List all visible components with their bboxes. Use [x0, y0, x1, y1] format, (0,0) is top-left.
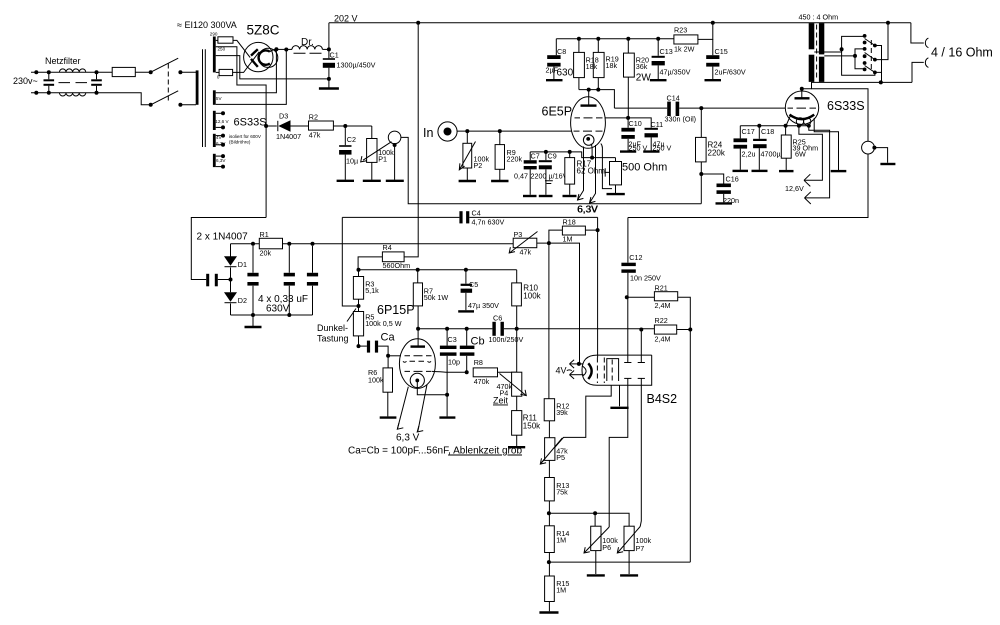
tube 6E5P screen grid dashes	[575, 117, 603, 119]
transformer T1 6.3V winding	[213, 154, 216, 167]
node CRT heater	[577, 362, 581, 366]
capacitor Cb	[466, 329, 468, 346]
tube B4S2 heater arc	[583, 366, 587, 376]
node 6S33S grid / R24	[699, 106, 703, 110]
resistor R18	[574, 52, 585, 77]
potentiometer P5	[548, 421, 550, 438]
svg-text:P7: P7	[636, 544, 645, 553]
capacitor C3	[446, 329, 448, 346]
node 202V drop	[416, 21, 420, 25]
node Z terminal bottom	[393, 143, 397, 147]
svg-text:R8: R8	[474, 358, 483, 367]
svg-text:18k: 18k	[606, 61, 618, 70]
transformer OT secondary bottom section	[819, 57, 824, 82]
svg-text:C14: C14	[667, 94, 680, 103]
capacitor C10	[626, 116, 630, 120]
svg-text:C3: C3	[448, 335, 457, 344]
diode D2	[230, 280, 232, 316]
svg-text:1k 2W: 1k 2W	[674, 45, 695, 54]
svg-text:C4: C4	[472, 208, 481, 217]
wire R4 left to grid rail	[358, 257, 382, 270]
wiper P1	[363, 142, 392, 161]
svg-text:220k: 220k	[708, 149, 726, 158]
svg-text:C1: C1	[330, 51, 339, 60]
tube 6P15P cathode circle	[410, 373, 424, 387]
node P6 top	[593, 511, 597, 515]
wire doubler feed from 250V tap	[191, 218, 266, 280]
ground C1	[328, 79, 330, 88]
ground R6	[387, 392, 389, 416]
svg-text:R21: R21	[655, 283, 668, 292]
node R10 bottom	[515, 327, 519, 331]
ground C16	[716, 202, 733, 204]
node 12.6V tap top	[216, 112, 223, 114]
ground C15	[705, 79, 722, 81]
ground R9	[499, 169, 501, 180]
resistor R20	[624, 53, 635, 77]
tube 5Z8C envelope	[244, 42, 273, 71]
node C13 top	[656, 37, 660, 41]
ground R11	[516, 435, 518, 446]
wire doubler bottom rail	[231, 314, 313, 316]
node R1 left	[251, 242, 255, 246]
capacitor bank C 0.33uF no2	[288, 246, 290, 315]
wire OT tap1	[814, 51, 841, 53]
node R17 top	[568, 150, 572, 154]
fuse HV bottom	[216, 71, 219, 73]
transformer T1 5V winding	[213, 90, 216, 105]
node cap2 top	[287, 242, 291, 246]
svg-text:Tastung: Tastung	[317, 334, 349, 344]
wire grid1 from blanking	[597, 230, 599, 357]
ground P6	[595, 551, 597, 574]
svg-text:20k: 20k	[260, 249, 272, 258]
svg-text:10p: 10p	[448, 358, 460, 367]
heater lead 6E5P left arrow	[578, 147, 584, 200]
tube B4S2 cathode arc	[588, 363, 591, 379]
svg-text:4700µ: 4700µ	[761, 150, 781, 159]
resistor R11	[516, 396, 518, 410]
svg-text:6,3V: 6,3V	[578, 205, 599, 216]
ground C3 cathode	[446, 395, 448, 417]
wire input to grid	[457, 130, 571, 132]
wire cathode right to ground	[814, 118, 838, 170]
svg-text:C13: C13	[660, 47, 673, 56]
resistor R21	[627, 296, 655, 298]
wire cathode left lead	[786, 116, 790, 126]
ground doubler	[252, 315, 254, 326]
svg-text:C17: C17	[742, 127, 755, 136]
heater lead 12.6V arrow b	[805, 126, 830, 198]
wire R21R22 return	[549, 561, 690, 563]
connector Z terminal circle	[388, 131, 401, 144]
node divider low	[548, 553, 550, 577]
tube 6P15P envelope	[399, 339, 435, 389]
node cathode B+ b	[284, 48, 288, 52]
wire OT tap2	[824, 55, 855, 57]
ground C7	[523, 195, 537, 197]
svg-text:18k: 18k	[586, 62, 598, 71]
wire OT secondary bottom out	[812, 81, 913, 84]
ground P2	[466, 168, 468, 180]
node 12.6V tap bottom	[216, 126, 223, 128]
wire cathode to node	[591, 144, 592, 158]
fuse F1	[112, 67, 135, 76]
svg-text:P1: P1	[378, 155, 387, 164]
transformer T1 primary winding	[196, 70, 199, 104]
resistor R25	[785, 126, 787, 135]
transformer OT core dashed	[816, 25, 818, 81]
capacitor C16	[701, 174, 723, 184]
node 6S33S anode	[800, 87, 804, 91]
ground cathode 6S33S	[831, 170, 847, 172]
svg-text:5,1k: 5,1k	[365, 286, 379, 295]
potentiometer P1	[371, 126, 373, 139]
node NFB right	[872, 146, 876, 150]
svg-text:Dunkel-: Dunkel-	[317, 323, 348, 333]
svg-text:250: 250	[218, 47, 226, 52]
wire Dunkel-Tastung vertical	[342, 217, 358, 306]
heater lead 12.6V arrow a	[799, 126, 823, 181]
wire doubler top rail to R1	[231, 243, 260, 245]
svg-text:C15: C15	[715, 47, 728, 56]
svg-text:75k: 75k	[556, 488, 568, 497]
tube 6P15P anode	[411, 345, 426, 347]
node anode	[416, 327, 420, 331]
node C5 top	[464, 268, 468, 272]
tube 6S33S anode	[795, 97, 810, 99]
node Cb bottom	[465, 370, 469, 374]
wire D3 to R2	[291, 125, 309, 127]
node Cb top	[465, 327, 469, 331]
svg-text:36k: 36k	[636, 62, 648, 71]
tube 6S33S heater circle b	[804, 118, 811, 125]
node 6.3Vb tap bottom	[216, 166, 223, 168]
svg-text:isoliert für 600V: isoliert für 600V	[229, 134, 262, 139]
svg-text:1300µ/450V: 1300µ/450V	[337, 61, 376, 70]
svg-text:6,3V: 6,3V	[216, 158, 226, 163]
svg-text:≈ EI120 300VA: ≈ EI120 300VA	[177, 20, 237, 30]
svg-text:(Bildröhre): (Bildröhre)	[229, 140, 251, 145]
node R3 bottom	[358, 299, 360, 311]
SECTION_INPUT	[546, 21, 786, 205]
tube 6E5P control grid dashes	[574, 130, 603, 132]
node R25 top	[784, 124, 788, 128]
node R18 top	[577, 37, 581, 41]
wire 202V drop to R4	[404, 23, 418, 257]
switch blade 2	[865, 53, 875, 60]
node tap2	[853, 54, 857, 58]
node rail to switch	[886, 21, 890, 25]
switch contacts right column	[873, 44, 877, 48]
tube 6S33S grid dashes	[788, 107, 817, 109]
node grid 6P15P	[386, 354, 390, 358]
node R7 top	[416, 268, 420, 272]
svg-text:D3: D3	[279, 112, 288, 121]
wire right contacts to bottom	[875, 46, 882, 83]
svg-text:R1: R1	[260, 230, 269, 239]
svg-text:2 x 1N4007: 2 x 1N4007	[197, 232, 249, 243]
node C3 bottom	[445, 393, 449, 397]
node R19 top	[596, 37, 600, 41]
svg-text:D1: D1	[238, 260, 247, 269]
ground C8	[546, 79, 563, 81]
wire 5V top tap	[216, 49, 277, 92]
svg-text:2,4M: 2,4M	[655, 335, 671, 344]
resistor R5	[353, 312, 363, 336]
wire grid3 to R8 node	[432, 370, 467, 373]
tube 6S33S heater circle a	[796, 118, 803, 125]
svg-text:1M: 1M	[556, 536, 566, 545]
resistor R14	[545, 526, 555, 553]
tube 5Z8C anode lower	[251, 59, 258, 67]
node tap1	[840, 47, 844, 51]
svg-text:6S33S: 6S33S	[827, 99, 865, 113]
svg-text:B4S2: B4S2	[647, 392, 678, 406]
ground R17	[569, 184, 571, 195]
wire 250 tap down	[216, 47, 266, 218]
ground NFB	[880, 163, 895, 165]
svg-text:47µ 350V: 47µ 350V	[468, 301, 499, 310]
wire right contact mid to 202V rail	[875, 23, 888, 60]
switch S1 pole A	[149, 70, 153, 74]
svg-text:202 V: 202 V	[334, 14, 358, 24]
heater arrow CRT lower	[570, 374, 584, 376]
svg-text:6P15P: 6P15P	[377, 303, 415, 317]
tube 6P15P grid1 dashes	[405, 355, 432, 357]
node C1 top	[327, 47, 331, 51]
svg-text:4,7n 630V: 4,7n 630V	[472, 218, 505, 227]
resistor R10	[516, 270, 518, 283]
svg-text:D2: D2	[238, 296, 247, 305]
choke core dashes	[294, 52, 322, 54]
node C1 bottom	[327, 77, 331, 81]
wire to P6 P7 tops	[549, 513, 629, 526]
resistor R13	[548, 460, 550, 477]
tube 6S33S cathode arc	[790, 115, 815, 120]
resistor R6	[387, 356, 389, 368]
svg-text:C12: C12	[629, 253, 642, 262]
deflection plate bottom a	[624, 377, 631, 379]
potentiometer P6	[594, 513, 596, 526]
svg-text:C10: C10	[629, 119, 642, 128]
resistor R24	[700, 108, 702, 137]
svg-text:150k: 150k	[523, 422, 541, 431]
tube B4S2 grid bar g1 dashed	[596, 358, 598, 384]
node 6.3Vb tap top	[216, 155, 223, 157]
svg-text:6,3 V: 6,3 V	[396, 433, 420, 444]
wire 290 tap diagonal to anode	[233, 40, 250, 57]
svg-text:C2: C2	[347, 135, 356, 144]
node C9 top	[544, 150, 548, 154]
svg-text:C16: C16	[726, 175, 739, 184]
SECTION_RIGHT	[317, 21, 654, 457]
wire anode node 6E5P	[579, 90, 615, 109]
wire grid to tube	[388, 355, 401, 357]
svg-text:4 / 16 Ohm: 4 / 16 Ohm	[931, 46, 993, 60]
wire to D3	[266, 125, 277, 127]
node R22 right	[688, 328, 692, 332]
SECTION_TOPMID	[628, 13, 993, 218]
resistor R18b 1M	[549, 230, 563, 243]
capacitor Ca	[359, 345, 367, 347]
inductor Dr. choke	[292, 46, 322, 50]
ground R15	[548, 602, 550, 612]
potentiometer P7	[624, 526, 634, 550]
heater arrow CRT upper	[570, 363, 584, 365]
resistor R17	[569, 152, 571, 158]
svg-text:50k 1W: 50k 1W	[424, 293, 449, 302]
switch matrix outer frame	[842, 36, 875, 75]
node C18 top	[757, 124, 761, 128]
svg-text:290: 290	[210, 32, 218, 37]
svg-text:Ca: Ca	[381, 332, 396, 344]
tube B4S2 grid bar g3 dashed	[611, 360, 613, 384]
svg-text:1M: 1M	[556, 586, 566, 595]
switch contacts left column	[863, 34, 867, 38]
svg-text:630V: 630V	[266, 304, 290, 315]
wire NFB connector down to blanking line	[628, 154, 868, 218]
wire Z terminal to ground	[394, 145, 396, 180]
svg-text:6S33S: 6S33S	[234, 117, 267, 129]
ground C9	[539, 195, 553, 197]
svg-text:100k 0,5 W: 100k 0,5 W	[365, 319, 402, 328]
wire P3 rail to CRT heater	[537, 243, 580, 364]
tube B4S2 envelope	[582, 355, 652, 385]
deflection plate top a	[624, 362, 631, 364]
node C3 top	[445, 327, 449, 331]
ground P7	[628, 551, 630, 574]
resistor R15	[545, 576, 555, 602]
wire R18b right to C4 node	[585, 217, 597, 230]
svg-text:P6: P6	[602, 543, 611, 552]
switch blade 3	[865, 66, 875, 73]
node R20 top	[626, 37, 630, 41]
svg-text:62 Ohm: 62 Ohm	[577, 167, 606, 176]
fuse HV top	[216, 39, 218, 41]
svg-text:12,6V: 12,6V	[785, 184, 804, 193]
wire 0 tap diagonal to anode	[233, 52, 260, 73]
ground C5	[458, 310, 474, 312]
svg-text:6W: 6W	[795, 150, 806, 159]
svg-text:Dr.: Dr.	[301, 37, 314, 48]
transformer T1 4V/6.3V winding	[213, 134, 216, 147]
switch gang dashed	[870, 40, 872, 70]
svg-text:10n 250V: 10n 250V	[630, 273, 661, 282]
svg-text:230v~: 230v~	[13, 76, 38, 86]
wire 202V rail	[329, 22, 911, 24]
tube 6E5P cathode circle	[583, 135, 594, 146]
wire switch to transformer primary	[180, 72, 196, 105]
transformer T1 12.6V winding	[213, 111, 216, 130]
svg-text:2W: 2W	[636, 73, 652, 84]
wiper 500 Ohm	[605, 168, 609, 176]
svg-text:2,4M: 2,4M	[655, 301, 671, 310]
svg-text:0,47: 0,47	[514, 172, 528, 181]
svg-text:C11: C11	[651, 120, 664, 129]
switch matrix inner frame	[855, 49, 865, 69]
node P2 top	[465, 129, 469, 133]
wire tap2 down to C1 bottom	[216, 56, 329, 79]
svg-text:12,6 V: 12,6 V	[215, 119, 229, 124]
svg-text:47k: 47k	[520, 248, 532, 257]
capacitor X-cap Cx1	[44, 79, 55, 81]
svg-text:2uF/630V: 2uF/630V	[715, 68, 746, 77]
svg-text:Ca=Cb = 100pF...56nF, Ablenkze: Ca=Cb = 100pF...56nF, Ablenkzeit grob	[348, 446, 522, 457]
node mains L terminal	[34, 70, 38, 74]
heater lead 6E5P right arrow	[590, 145, 596, 203]
node heater pin a	[797, 124, 801, 128]
wire R8 to P4	[498, 371, 517, 373]
transformer OT secondary top section	[819, 23, 824, 54]
diode D1	[230, 244, 232, 280]
node mains N terminal	[34, 91, 38, 95]
svg-text:R23: R23	[674, 26, 687, 35]
speaker jack lower	[912, 62, 924, 82]
connector input jack	[438, 122, 457, 141]
node heater pin b	[807, 124, 811, 128]
resistor R9	[499, 131, 501, 145]
inductor filter choke bottom winding	[59, 93, 85, 96]
wire cathode node rail	[530, 152, 615, 158]
wire cathode to ground node	[417, 380, 447, 394]
svg-text:Netzfilter: Netzfilter	[45, 56, 81, 66]
wire mains top rail	[31, 71, 151, 73]
svg-text:R2: R2	[309, 113, 318, 122]
node R5 bottom	[358, 336, 360, 346]
svg-text:47k: 47k	[309, 131, 321, 140]
resistor R3	[358, 270, 360, 277]
SECTION_SWEEP	[539, 205, 692, 613]
wire blanking C4 line	[342, 216, 597, 218]
tube 5Z8C anode upper	[251, 49, 258, 55]
svg-text:2200 µ/16V: 2200 µ/16V	[531, 172, 568, 181]
ground P1	[371, 162, 373, 179]
heater lead 6P15P right	[418, 385, 427, 432]
svg-text:5Z8C: 5Z8C	[247, 23, 280, 38]
node divider mid	[548, 501, 550, 526]
transformer OT primary top section	[809, 23, 815, 49]
potentiometer P4	[512, 372, 522, 396]
tube B4S2 grid bar g2 dashed	[603, 358, 605, 384]
speaker jack upper	[911, 23, 924, 43]
transformer T1 core	[203, 49, 206, 147]
svg-text:100n/250V: 100n/250V	[489, 335, 524, 344]
wire R2 to P1	[333, 125, 371, 127]
SECTION_DOUBLER	[423, 90, 667, 216]
wire grid rail	[359, 269, 517, 271]
svg-text:560Ohm: 560Ohm	[383, 261, 411, 270]
wire cathode bypass rail	[740, 125, 810, 127]
node R24 bottom	[699, 172, 703, 176]
tube 6E5P anode	[581, 104, 597, 106]
SECTION_MAINS	[191, 112, 701, 328]
heater lead 6P15P left	[398, 387, 409, 429]
svg-text:47µ/350V: 47µ/350V	[660, 68, 691, 77]
node bottom rail cap2	[287, 313, 291, 317]
svg-text:330n (Oil): 330n (Oil)	[665, 115, 697, 124]
ground C13	[650, 79, 667, 81]
filter core dashed	[59, 82, 88, 84]
tube 6E5P envelope	[571, 97, 606, 149]
svg-text:100k: 100k	[368, 376, 384, 385]
node C2 top	[343, 124, 347, 128]
wire OT primary bottom to anode	[802, 82, 812, 89]
svg-text:500 Ohm: 500 Ohm	[622, 162, 667, 174]
wire anode to NFB connector	[812, 89, 869, 142]
svg-text:39k: 39k	[556, 408, 568, 417]
inductor filter choke top winding	[59, 69, 85, 72]
